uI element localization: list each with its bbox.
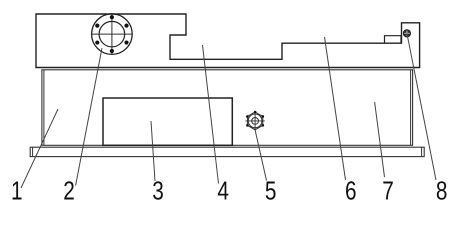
svg-text:2: 2: [63, 176, 75, 205]
svg-text:7: 7: [382, 176, 394, 205]
svg-text:4: 4: [217, 176, 229, 205]
svg-text:3: 3: [152, 176, 164, 205]
svg-text:5: 5: [265, 176, 277, 205]
svg-text:1: 1: [11, 176, 23, 205]
svg-text:8: 8: [436, 176, 448, 205]
svg-text:6: 6: [345, 176, 357, 205]
